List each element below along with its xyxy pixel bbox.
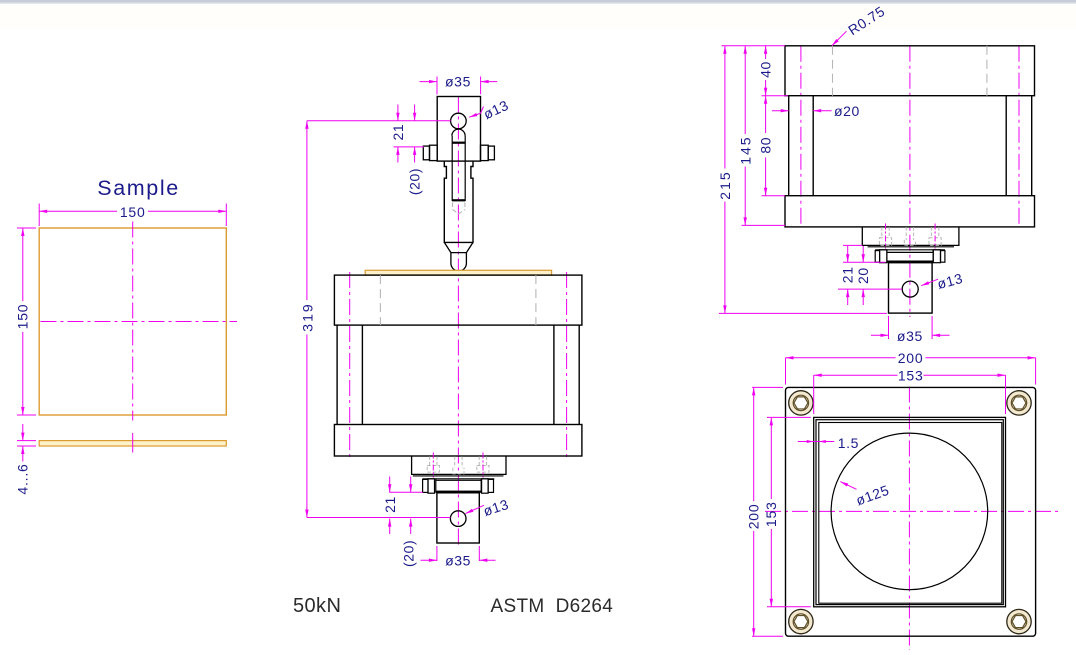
svg-text:ø35: ø35 — [445, 74, 471, 90]
extension line column bottom — [762, 195, 786, 197]
column centerline left — [349, 272, 351, 459]
dimension 4...6 — [17, 424, 36, 462]
dimension 21 lower — [389, 477, 391, 535]
top support plate — [334, 275, 582, 325]
left column — [789, 96, 814, 196]
hidden bolt left — [879, 227, 891, 245]
svg-text:(20): (20) — [400, 540, 416, 567]
hole circle o125 — [831, 433, 988, 590]
svg-text:40: 40 — [758, 61, 774, 78]
upper grip block — [437, 97, 480, 162]
svg-text:200: 200 — [745, 504, 761, 530]
flange left tabs — [875, 251, 879, 263]
upper pin hole circle o13 — [451, 113, 467, 129]
hidden hole edges in top plate — [833, 46, 987, 96]
bottom plate — [785, 196, 1035, 227]
dimension 153 top — [814, 375, 1006, 414]
corner screw bottom-right — [1007, 609, 1031, 633]
column centerline right — [1018, 46, 1020, 228]
flange top line — [423, 478, 495, 480]
flange hub thick bottom — [887, 261, 933, 263]
svg-text:ø35: ø35 — [445, 552, 471, 568]
hidden bolt right — [477, 456, 489, 472]
extension line upper pin center — [307, 120, 451, 122]
svg-text:ASTM D6264: ASTM D6264 — [491, 596, 614, 617]
svg-text:50kN: 50kN — [293, 595, 341, 617]
svg-text:215: 215 — [717, 170, 733, 199]
pin thread band lower — [452, 199, 465, 201]
svg-text:150: 150 — [15, 304, 31, 330]
extension line stub pin center — [838, 288, 902, 290]
dimension 200 left — [752, 387, 783, 636]
outer base plate square — [786, 387, 1036, 636]
bottom plate — [334, 425, 582, 457]
leader o13 right view — [921, 279, 938, 286]
lower stub — [889, 263, 933, 313]
horizontal centerline — [765, 510, 1058, 512]
corner screw top-left — [789, 391, 813, 415]
pin dome arc — [452, 129, 465, 136]
right column — [554, 325, 579, 424]
dimension o20 — [772, 110, 832, 112]
leader o13 upper — [469, 107, 483, 118]
svg-text:153: 153 — [898, 368, 924, 384]
leader R0.75 — [832, 31, 847, 46]
leader o13 lower — [465, 505, 484, 513]
sample square horizontal centerline — [41, 321, 238, 323]
main vertical centerline — [457, 97, 459, 548]
lower pin hole circle o13 — [450, 511, 466, 527]
dimension 1.5 leader — [798, 441, 835, 443]
svg-text:21: 21 — [390, 124, 406, 141]
dimension o35 bottom — [421, 546, 496, 561]
dimension 150 horizontal — [39, 204, 226, 227]
dimension o35 top — [420, 77, 498, 95]
extension line plate bottom — [762, 95, 789, 97]
bolt centerline right — [934, 224, 936, 249]
extension line flange bottom right view — [843, 261, 886, 263]
svg-text:319: 319 — [300, 302, 316, 331]
dimension 150 vertical — [17, 228, 36, 415]
extension line upper ear top — [394, 146, 425, 148]
extension line stub bottom — [719, 312, 887, 314]
pin shaft — [452, 136, 465, 201]
pin thread band upper — [452, 142, 465, 144]
svg-text:1.5: 1.5 — [838, 435, 859, 451]
svg-text:Sample: Sample — [97, 176, 180, 200]
extension line adapter bottom right view — [843, 244, 862, 246]
flange right tabs — [933, 250, 940, 263]
upper grip left ear — [423, 146, 429, 160]
stub pin hole circle o13 — [902, 281, 918, 297]
svg-text:145: 145 — [737, 135, 753, 164]
dimension o35 right view — [871, 316, 950, 339]
adapter block — [862, 227, 959, 246]
left column — [337, 325, 362, 424]
svg-text:4...6: 4...6 — [14, 463, 30, 494]
svg-text:150: 150 — [120, 204, 146, 220]
extension line plate top — [722, 45, 786, 47]
svg-text:21: 21 — [839, 266, 855, 283]
flange left tabs — [423, 479, 428, 492]
hidden drill continuation — [453, 203, 465, 214]
flange top line — [875, 249, 945, 251]
extension line lower pin center — [307, 517, 450, 519]
bolt centerline left — [432, 453, 434, 478]
hidden bolt left — [427, 456, 439, 472]
hidden bolt center — [453, 456, 464, 474]
svg-text:200: 200 — [898, 350, 924, 366]
dimension 145 — [744, 46, 746, 226]
svg-text:21: 21 — [382, 496, 398, 513]
flange right tabs — [482, 479, 489, 493]
bolt centerline left — [885, 224, 887, 249]
hidden hole edges in top plate — [380, 275, 536, 325]
upper grip right ear — [481, 145, 489, 160]
flange hub — [436, 479, 481, 493]
top window chrome bar — [0, 0, 1076, 3]
washer line — [868, 246, 954, 248]
extension line base bottom — [742, 224, 786, 226]
hidden bolt right — [929, 227, 941, 245]
column centerline left — [800, 46, 802, 228]
thin plate centerline tick — [132, 433, 134, 453]
svg-text:ø35: ø35 — [897, 328, 923, 344]
hidden bolt center — [904, 227, 915, 245]
right column — [1006, 96, 1031, 196]
indenter tip — [451, 253, 467, 271]
washer line — [413, 475, 504, 477]
dimension 20 right — [862, 246, 864, 305]
column centerline right — [566, 272, 568, 459]
leader o125 — [840, 482, 856, 490]
dimension (20) upper — [414, 105, 416, 163]
dimension 40 — [765, 46, 767, 96]
main vertical centerline — [909, 46, 911, 317]
bolt centerline right — [482, 453, 484, 478]
sample thin plate side view — [39, 441, 226, 446]
sample square outline — [39, 228, 226, 415]
svg-text:80: 80 — [758, 137, 774, 154]
inner ring square inner — [819, 423, 1002, 604]
indenter taper — [444, 242, 473, 252]
svg-text:153: 153 — [763, 501, 779, 527]
dimension 21 upper — [397, 105, 399, 163]
svg-text:ø20: ø20 — [834, 103, 860, 119]
dimension 319 — [306, 121, 308, 518]
flange hub — [887, 250, 933, 263]
inner ring square middle — [816, 420, 1003, 605]
faint warm band under chrome — [0, 3, 1076, 29]
svg-text:(20): (20) — [406, 168, 422, 195]
dimension 215 — [724, 46, 726, 314]
corner screw top-right — [1007, 391, 1031, 415]
dimension 21 right — [847, 246, 849, 305]
indenter body profile — [444, 161, 473, 242]
dimension (20) lower — [410, 477, 412, 535]
dimension 153 left — [767, 417, 811, 606]
adapter block — [412, 456, 506, 474]
lower stub — [437, 493, 479, 543]
vertical centerline — [908, 387, 910, 651]
extension line lower flange bottom — [389, 491, 423, 493]
sample square vertical centerline — [132, 222, 134, 421]
dimension 80 — [765, 96, 767, 196]
svg-text:20: 20 — [855, 267, 871, 284]
dimension 200 top — [786, 358, 1036, 385]
inner ring square outer — [814, 417, 1006, 606]
top plate — [785, 46, 1035, 96]
flange hub thick bottom — [436, 491, 481, 493]
corner screw bottom-left — [789, 609, 813, 633]
sample bar on fixture — [365, 270, 551, 275]
